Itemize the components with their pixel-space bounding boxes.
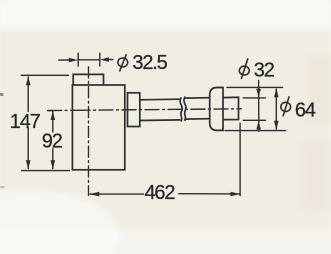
- svg-text:462: 462: [145, 182, 176, 204]
- coil cap boss: [73, 74, 103, 84]
- dim 147 top extension line: [21, 74, 68, 76]
- mounting flange: [128, 93, 140, 127]
- dim phi32 bottom extension line right side: [243, 119, 265, 121]
- paper white top: [0, 0, 331, 26]
- arrow 92 top pointing up: [51, 111, 56, 120]
- shaft right segment top line: [185, 97, 210, 99]
- dim phi32 vertical line through extension lines: [258, 81, 260, 132]
- coil body: [72, 85, 124, 170]
- dim phi32.5 line between ticks: [78, 59, 100, 61]
- horizontal axis centerline: [48, 109, 242, 111]
- dim phi32 top extension line right side: [243, 97, 265, 99]
- phi symbol of 32: [239, 58, 249, 79]
- arrow phi32.5 left pointing right: [69, 58, 78, 63]
- arrow 462 left pointing left: [89, 192, 99, 197]
- dim phi64 vertical line: [275, 89, 277, 129]
- paper tint center: [0, 30, 331, 230]
- phi symbol of 32.5: [118, 54, 128, 71]
- paper white corner bottom-left: [0, 190, 120, 254]
- dim 147 vertical line upper segment: [27, 77, 29, 112]
- dim 92 vertical line upper segment: [52, 111, 54, 132]
- dim 462 line right segment: [179, 193, 239, 195]
- arrow phi64 top pointing up: [274, 88, 279, 97]
- arrow phi32 lower pointing up: [256, 121, 261, 130]
- shaft break squiggle left: [180, 98, 182, 121]
- arrow phi32 upper pointing down: [256, 89, 261, 98]
- ghost print right margin: [307, 55, 331, 125]
- svg-text:32.5: 32.5: [132, 52, 167, 74]
- dim phi32.5 extension tick left: [77, 53, 79, 66]
- shaft right segment bottom line: [185, 118, 210, 120]
- arrow 92 bottom pointing down: [51, 160, 56, 169]
- vertical centerline through cap and body: [88, 67, 90, 195]
- svg-text:64: 64: [295, 99, 316, 121]
- svg-text:32: 32: [254, 60, 275, 82]
- dim 147 vertical line lower segment: [27, 128, 29, 169]
- dim phi32.5 extension tick right: [99, 53, 101, 66]
- dim phi32.5 left leader: [59, 59, 70, 61]
- svg-text:147: 147: [10, 111, 41, 133]
- dim phi64 bottom extension line: [225, 130, 286, 132]
- dim 462 line left segment: [90, 193, 144, 195]
- svg-text:92: 92: [42, 131, 63, 153]
- shaft left segment bottom line: [140, 119, 180, 122]
- arrow 147 top pointing up: [26, 76, 31, 85]
- dim phi64 top extension line: [227, 86, 283, 88]
- arrow phi32.5 right pointing left: [100, 57, 109, 62]
- plunger neck: [223, 97, 238, 119]
- bottom extension line under body left: [22, 170, 70, 172]
- dim 92 vertical line lower segment: [52, 149, 54, 169]
- dim phi32.5 right leader: [106, 59, 113, 61]
- stray scan mark left edge lower: [0, 186, 5, 188]
- plunger head dome: [210, 88, 223, 131]
- arrow phi64 bottom pointing down: [274, 121, 279, 130]
- dim 462 right extension line: [239, 123, 241, 195]
- shaft break squiggle right: [184, 97, 186, 120]
- arrow 462 right pointing right: [231, 192, 241, 197]
- arrow 147 bottom pointing down: [26, 160, 31, 169]
- dim 92 top extension (axis level): [48, 110, 53, 112]
- phi symbol of 64: [281, 96, 291, 116]
- shaft left segment top line: [140, 98, 180, 101]
- stray scan mark left edge upper: [0, 93, 4, 96]
